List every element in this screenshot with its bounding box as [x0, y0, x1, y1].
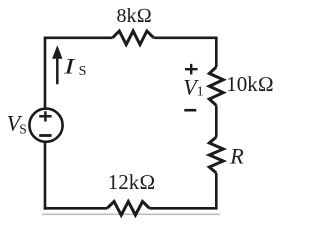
wire bottom horizontal left segment	[44, 207, 107, 210]
resistor R_8k zigzag	[113, 31, 154, 45]
wire top-left vertical (VS top to top-left corner)	[44, 38, 47, 108]
voltage source VS circle	[29, 109, 62, 142]
resistor R zigzag	[209, 137, 223, 173]
svg-text:S: S	[79, 64, 87, 79]
svg-text:10kΩ: 10kΩ	[226, 72, 274, 96]
label V1	[183, 75, 203, 100]
svg-text:S: S	[19, 121, 27, 136]
current arrow IS	[52, 45, 62, 84]
svg-text:12kΩ: 12kΩ	[108, 170, 156, 194]
resistor R_10k zigzag	[209, 67, 223, 105]
wire top horizontal right segment	[154, 36, 217, 39]
wire right vertical middle (10k bottom to R top)	[215, 105, 218, 137]
label IS	[63, 53, 87, 79]
wire bottom horizontal right segment	[150, 207, 218, 210]
resistor R_12k zigzag	[107, 202, 150, 216]
label V1 minus sign	[184, 109, 196, 112]
scan artifact faint line	[42, 213, 220, 215]
wire top horizontal left segment	[44, 36, 113, 39]
label VS	[7, 110, 27, 136]
wire right vertical lower (R bottom to bottom-right corner)	[215, 173, 218, 208]
wire right vertical upper (corner to 10k top)	[215, 37, 218, 68]
svg-text:R: R	[229, 143, 244, 168]
voltage source VS minus sign	[39, 134, 51, 137]
voltage source VS plus sign	[39, 111, 51, 121]
svg-text:1: 1	[197, 84, 204, 99]
svg-text:8kΩ: 8kΩ	[117, 5, 152, 27]
label V1 plus sign	[185, 64, 198, 75]
wire bottom-left vertical (corner to VS bottom)	[44, 143, 47, 210]
